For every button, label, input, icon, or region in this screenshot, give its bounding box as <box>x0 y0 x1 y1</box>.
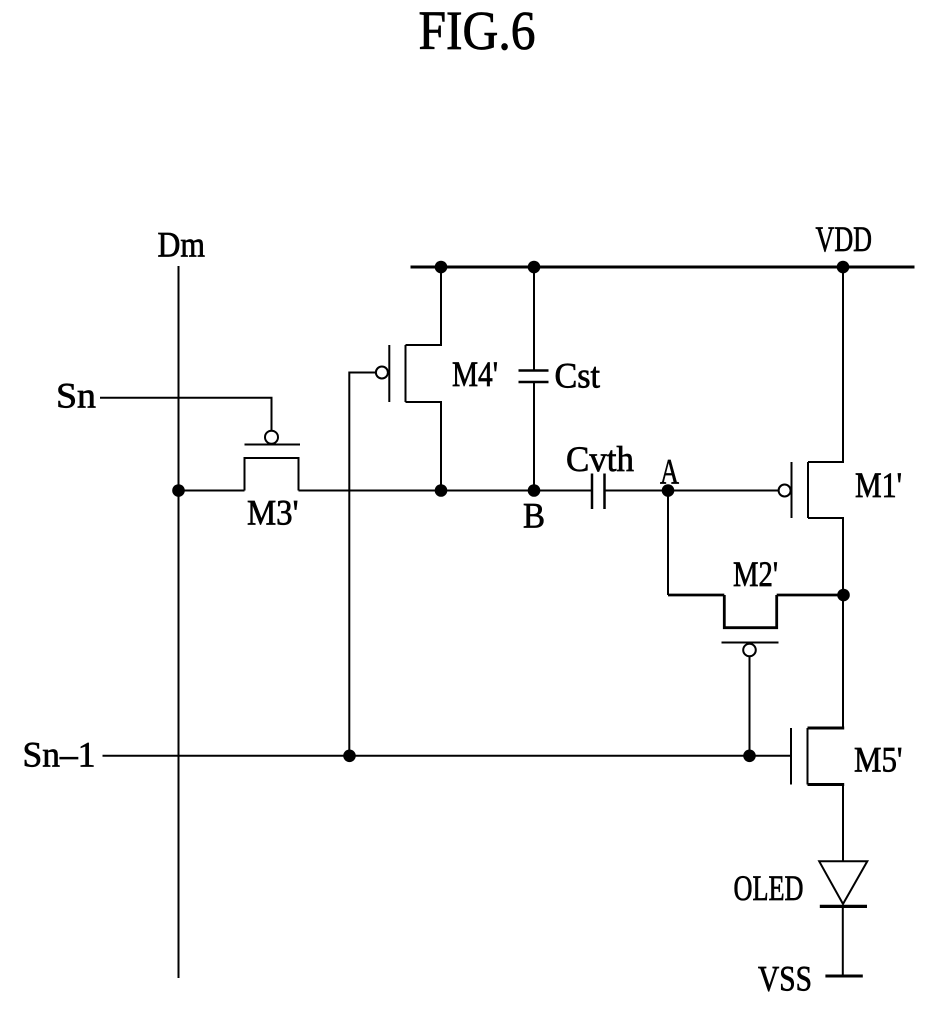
capacitor Cvth plates <box>591 474 594 510</box>
diode OLED cathode bar <box>820 905 867 908</box>
svg-text:Cst: Cst <box>555 356 601 396</box>
transistor M4' gate bubble <box>376 367 388 379</box>
node junction VDD / M4 drain <box>435 261 448 274</box>
svg-text:A: A <box>660 452 679 492</box>
wire Sn-1 scan line <box>103 755 792 757</box>
transistor M5' drain lead up <box>808 727 845 730</box>
node junction Dm / M3 source <box>172 484 185 497</box>
transistor M1' drain lead down <box>808 518 843 595</box>
svg-text:Sn–1: Sn–1 <box>23 735 96 775</box>
transistor M4' channel <box>405 345 407 402</box>
transistor M2' gate bar <box>722 642 779 644</box>
transistor M2' source lead <box>668 594 724 597</box>
svg-text:M1': M1' <box>855 465 902 505</box>
svg-text:B: B <box>523 496 545 536</box>
transistor M1' source lead to VDD <box>808 267 843 462</box>
node junction M1 drain / M2 drain / M5 drain <box>837 589 850 602</box>
transistor M5' gate bar <box>790 728 792 785</box>
node B junction <box>528 484 541 497</box>
wire row node B line (M3 to Cvth) <box>299 490 592 492</box>
transistor M1' gate bar <box>791 462 793 518</box>
wire VDD rail <box>411 266 915 269</box>
svg-text:VSS: VSS <box>758 959 812 999</box>
svg-text:M4': M4' <box>452 354 498 394</box>
wire Cvth to M1 gate <box>606 490 779 492</box>
svg-text:VDD: VDD <box>816 219 873 259</box>
terminal VSS bar <box>825 975 862 978</box>
transistor M2' drain lead <box>777 594 844 597</box>
transistor M1' channel <box>807 462 809 518</box>
svg-text:FIG.6: FIG.6 <box>419 0 536 61</box>
svg-text:M3': M3' <box>247 493 299 533</box>
node junction VDD / Cst <box>528 261 541 274</box>
transistor M4' source lead to row <box>406 402 442 491</box>
wire Dm data line (vertical) <box>178 266 180 978</box>
transistor M3' channel <box>245 458 299 491</box>
transistor M2' channel <box>724 595 776 628</box>
node junction Sn-1 / M2 gate <box>743 750 756 763</box>
transistor M4' gate wire <box>349 373 376 756</box>
diode OLED anode triangle <box>819 861 867 904</box>
capacitor Cst bottom wire <box>533 383 535 491</box>
transistor M3' gate bar <box>245 444 301 446</box>
svg-text:Cvth: Cvth <box>566 439 634 479</box>
transistor M5' channel <box>807 728 809 785</box>
transistor M2' gate wire to Sn-1 <box>749 656 751 756</box>
transistor M4' drain lead to VDD <box>406 267 442 345</box>
capacitor Cst top wire <box>533 267 535 370</box>
wire Sn scan line to M3 gate <box>100 398 272 431</box>
wire OLED to VSS <box>842 905 844 976</box>
node junction VDD / M1 source <box>837 261 850 274</box>
transistor M1' gate bubble <box>779 485 791 497</box>
svg-text:Sn: Sn <box>56 376 96 416</box>
node junction M4 source / row <box>435 484 448 497</box>
svg-text:M2': M2' <box>733 554 778 594</box>
wire row node B line (left of M3) <box>179 490 245 492</box>
node junction Sn-1 / M4 gate <box>343 750 356 763</box>
svg-text:Dm: Dm <box>158 225 206 265</box>
transistor M3' gate bubble <box>265 431 278 444</box>
transistor M2' gate bubble <box>743 644 756 657</box>
transistor M4' gate bar <box>388 345 390 402</box>
svg-text:OLED: OLED <box>734 868 804 908</box>
node A junction <box>662 484 675 497</box>
wire node A to M2 source <box>667 491 669 596</box>
svg-text:M5': M5' <box>854 740 903 780</box>
capacitor Cst plates <box>519 369 549 372</box>
transistor M5' source lead to OLED <box>808 783 845 786</box>
